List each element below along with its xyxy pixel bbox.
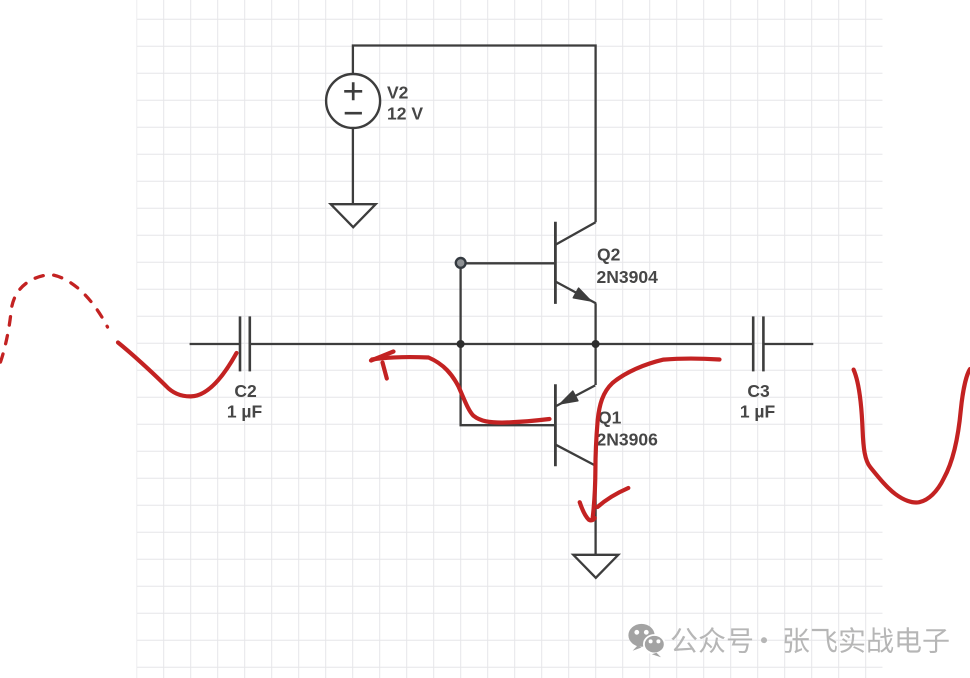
capacitor C3 xyxy=(753,316,763,371)
transistor Q1 2N3906 xyxy=(555,384,595,466)
watermark char zi xyxy=(923,629,948,653)
svg-text:Q2: Q2 xyxy=(597,245,621,265)
wire top rail V+ xyxy=(353,46,596,223)
grid background xyxy=(137,0,883,678)
svg-text:1 µF: 1 µF xyxy=(227,402,263,422)
watermark char fei xyxy=(812,629,837,652)
svg-text:V2: V2 xyxy=(387,83,409,103)
wire output node to Q1 emitter xyxy=(594,344,596,385)
svg-text:C2: C2 xyxy=(234,381,257,401)
red annotations xyxy=(1,275,970,521)
wire V2 bottom to ground xyxy=(352,128,354,204)
watermark char dian xyxy=(898,627,921,652)
svg-text:Q1: Q1 xyxy=(598,408,622,428)
wire Q2 emitter to output node xyxy=(594,303,596,344)
svg-text:C3: C3 xyxy=(747,381,770,401)
svg-text:2N3906: 2N3906 xyxy=(597,430,659,450)
transistor Q2 2N3904 xyxy=(555,222,596,304)
wire Q1 collector to ground xyxy=(594,466,596,555)
watermark char zhan xyxy=(868,627,893,653)
watermark char dot-sep xyxy=(761,637,767,643)
red tick up-right xyxy=(598,488,629,507)
Q1 emitter arrow xyxy=(560,391,578,404)
watermark char shi xyxy=(840,627,864,653)
wire base chain: node down and to Q1 base xyxy=(461,263,556,425)
capacitor C2 xyxy=(240,316,250,371)
wire Q2 base xyxy=(461,262,556,264)
node base junction dot xyxy=(456,258,466,268)
watermark char zhong xyxy=(699,627,725,653)
red down arrow barbs xyxy=(580,502,595,520)
watermark text xyxy=(671,627,948,653)
wire input to C2 xyxy=(190,343,240,345)
red input sine wave (solid trough) xyxy=(118,343,237,397)
red curve from Q1 base wire to arrow xyxy=(372,357,550,423)
junction dot output node xyxy=(592,340,600,348)
Q2 emitter arrow xyxy=(573,288,591,301)
svg-text:12 V: 12 V xyxy=(387,104,423,124)
red output waveform xyxy=(854,369,970,503)
watermark char gong xyxy=(671,628,697,653)
ground top (V2) xyxy=(331,204,376,227)
watermark char zhang xyxy=(785,628,810,653)
red arrow to Q1 base (head) xyxy=(371,352,394,379)
watermark wechat icon xyxy=(628,624,664,657)
red curve output to down arrow xyxy=(593,359,720,520)
junction dot on bus at base chain xyxy=(457,340,465,348)
svg-text:1 µF: 1 µF xyxy=(740,402,776,422)
svg-text:2N3904: 2N3904 xyxy=(597,267,659,287)
wire C3 to right xyxy=(763,343,813,345)
watermark char hao xyxy=(728,628,752,653)
ground bottom (Q1) xyxy=(573,555,618,578)
red input sine wave (dashed rise) xyxy=(1,275,108,363)
wire C2 to C3 (output bus) xyxy=(250,343,753,345)
voltage source V2 xyxy=(326,74,380,128)
